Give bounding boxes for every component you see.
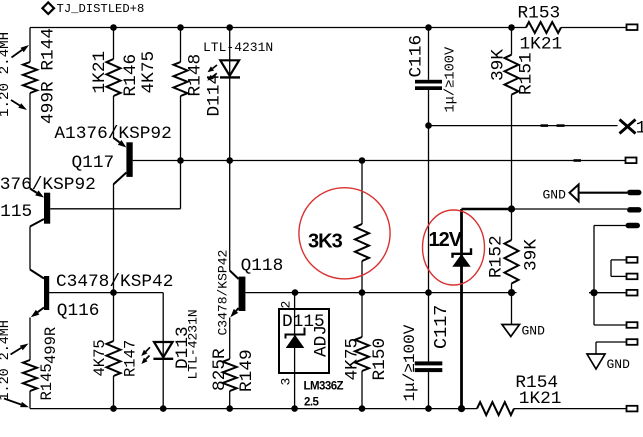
label R149 value [210,348,230,391]
label Q117 ref [72,153,115,173]
svg-text:3: 3 [279,378,294,386]
svg-text:1.20 2.4MH: 1.20 2.4MH [0,32,13,117]
resistor R154 [477,402,514,415]
node X1 cross [620,120,636,134]
svg-text:LM336Z: LM336Z [304,381,344,393]
label GND mid [522,324,546,339]
svg-text:R148: R148 [186,54,206,97]
annotation ellipse 12V [423,210,485,285]
capacitor C116 [415,80,442,90]
pad y225 filled [626,223,641,228]
svg-text:C3478/KSP42: C3478/KSP42 [56,272,173,292]
label D115 ADJ [312,325,332,357]
label X1 [636,119,643,139]
svg-text:Q116: Q116 [57,301,100,321]
label D115 pin2 [279,301,294,309]
wire dashes X1 branch [541,124,565,127]
wire pad8 to gnd [596,342,627,355]
capacitor C117 [415,361,443,372]
annotation circle 3K3 [299,188,390,279]
svg-text:4K75: 4K75 [139,51,159,94]
transistor Q117 collector [114,173,127,185]
svg-text:LTL-4231N: LTL-4231N [186,309,201,379]
label L value bot [0,320,13,400]
svg-text:Q117: Q117 [72,153,115,173]
transistor Q115 collector [30,219,44,227]
transistor Q117 bar [126,142,132,177]
shunt-ref D115 box [279,309,329,373]
zener D115 [286,328,305,349]
svg-text:1: 1 [636,119,643,139]
ground GND mid [502,325,520,337]
resistor R150 [355,337,369,371]
resistor R144 [23,62,37,93]
svg-text:39K: 39K [522,239,542,271]
label Q118 type [216,250,231,336]
pad y260 [627,257,638,263]
label D115 ref [282,312,325,332]
junction dots rail [110,405,465,412]
svg-text:825R: 825R [210,348,230,391]
svg-text:R149: R149 [237,349,257,392]
label R149 ref [237,349,257,392]
label R151 value [489,49,509,81]
label R154 value [519,389,562,409]
svg-text:R153: R153 [518,4,561,24]
label R152 ref [487,235,507,278]
svg-text:Q118: Q118 [241,256,284,276]
pad top-right [627,24,638,30]
svg-text:A1376/KSP92: A1376/KSP92 [0,175,96,195]
wire C116-C117 column x428.5 [428,28,430,409]
svg-text:D114: D114 [205,74,225,117]
wire bracket x611 [611,260,627,277]
label R145 ref [38,363,56,400]
label R150 value [343,338,363,381]
label LM336Z value [304,397,319,409]
svg-text:A1376/KSP92: A1376/KSP92 [54,124,171,144]
wire R151-R152 column x511.5 [511,28,513,325]
label L value top [0,32,13,117]
wire gnd-arrow pad y192.5 [579,192,627,194]
wire 12V net thick [462,209,513,409]
junction dots y292 [110,289,597,296]
pad row y160 [626,158,637,164]
svg-text:C116: C116 [407,35,427,78]
pad y325 [627,322,638,328]
svg-text:1μ/≥100V: 1μ/≥100V [444,46,459,112]
transistor Q118 bar [239,277,246,311]
label Q117 type [54,124,171,144]
ground GND right [587,354,605,369]
label R146 value [90,51,110,94]
svg-text:2.5: 2.5 [304,397,319,409]
wire mid row y292.6 [245,292,516,294]
label 3K3 [308,230,343,252]
label R152 value [522,239,542,271]
svg-text:499R: 499R [42,327,60,364]
label R151 ref [517,52,537,95]
pad y293 [627,290,638,296]
label D114 ref [205,74,225,117]
svg-text:Q115: Q115 [0,202,32,222]
label 12V [429,229,463,251]
transistor Q115 emitter [30,189,44,198]
label R147 ref [122,340,140,377]
svg-text:2: 2 [279,301,294,309]
port GND arrow [570,185,579,202]
svg-text:GND: GND [522,324,546,339]
wire top rail [30,27,627,29]
LED D113 [153,342,173,359]
svg-text:C117: C117 [431,305,452,349]
label D114 type [203,40,273,55]
wire left column x30 [29,28,31,409]
svg-text:4K75: 4K75 [91,339,109,376]
junction dots top rail [110,24,515,31]
svg-text:1K21: 1K21 [90,51,110,94]
label R154 ref [515,373,558,393]
label R153 ref [518,4,561,24]
svg-text:12V: 12V [429,229,463,251]
label LM336Z [304,381,344,393]
wire D115 column x294.6 [294,293,296,409]
transistor Q116 collector [30,270,44,279]
resistor R149 [223,359,237,391]
wire R148 column x180.5 [180,28,182,209]
pad y209 filled [627,207,642,212]
resistor R153 [526,22,561,33]
label Q116 ref [57,301,100,321]
resistor R146 [107,59,121,96]
transistor Q117 emitter [114,138,127,148]
svg-text:TJ_DISTLED+8: TJ_DISTLED+8 [57,2,145,16]
svg-text:1K21: 1K21 [519,389,562,409]
label C117 ref [431,305,452,349]
arrow L-couple bot-a [11,344,29,355]
label GND arrow [543,188,567,203]
svg-text:GND: GND [607,357,631,372]
label R145 value [42,327,60,364]
LED D114 arrows [207,65,217,81]
wire X1 branch y125.6 [429,125,618,127]
arrow L-couple top-b [11,100,27,110]
wire right column x594 [589,226,627,326]
label D113 ref [173,326,193,369]
resistor 3K3 [355,224,369,261]
label Q115 type [0,175,96,195]
svg-text:C3478/KSP42: C3478/KSP42 [216,250,231,336]
svg-text:R147: R147 [122,340,140,377]
arrow L-couple bot-b [4,399,29,408]
label R144 [39,28,59,124]
resistor R148 [174,62,188,96]
label C116 ref [407,35,427,78]
LED D113 arrows [141,347,150,364]
svg-text:R146: R146 [121,54,141,97]
resistor R147 [107,341,121,376]
pad y342 [627,339,638,345]
wire node base-row y160 [133,160,626,162]
label R147 value [91,339,109,376]
svg-text:499R R144: 499R R144 [39,28,59,124]
transistor Q115 bar [44,193,50,224]
wire bottom rail [30,408,627,410]
wire R146 column x113.5 [113,28,115,409]
wire dash y160 [574,159,582,162]
label R148 value [139,51,159,94]
label C116 value [444,46,459,112]
svg-text:3K3: 3K3 [308,230,343,252]
label C117 value [401,324,419,401]
svg-text:1K21: 1K21 [520,35,563,55]
resistor R151 [505,55,519,95]
zener 12V [452,248,471,267]
pad gnd filled [627,190,642,195]
label D113 type [186,309,201,379]
svg-text:4K75: 4K75 [343,338,363,381]
wire 3K3 column x362 [361,161,363,409]
junction dot y209 [508,205,515,212]
transistor Q118 emitter [230,308,238,317]
label TJ_DISTLED+8 [57,2,145,16]
label Q116 type [56,272,173,292]
label Q115 ref [0,202,32,222]
svg-text:R145: R145 [38,363,56,400]
label R153 value [520,35,563,55]
svg-text:39K: 39K [489,49,509,81]
label D115 pin3 [279,378,294,386]
svg-text:LTL-4231N: LTL-4231N [203,40,273,55]
transistor Q116 bar [44,276,49,310]
wire pad2 y209 [512,208,628,210]
resistor R152 [505,240,519,284]
svg-text:R151: R151 [517,52,537,95]
wire base row left y292.6 [49,293,163,409]
svg-text:1.20 2.4MH: 1.20 2.4MH [0,320,13,400]
svg-text:ADJ: ADJ [312,325,332,357]
svg-text:GND: GND [543,188,567,203]
transistor Q118 collector [230,271,239,280]
label R146 ref [121,54,141,97]
svg-text:1μ/≥100V: 1μ/≥100V [401,324,419,401]
flag TJ_DISTLED+8 diamond [42,2,54,14]
wire Q115 base [50,208,180,210]
label Q118 ref [241,256,284,276]
svg-text:R150: R150 [370,338,390,381]
arrow L-couple top-a [12,45,30,58]
svg-text:R152: R152 [487,235,507,278]
wire D114 column x229.7 [229,28,231,409]
junction dot y125 [425,122,432,129]
junction dots y160 [177,157,365,164]
label R150 ref [370,338,390,381]
LED D114 [220,60,240,77]
label R148 ref [186,54,206,97]
label GND right [607,357,631,372]
pad y276 [627,274,638,280]
pad bottom-right [627,406,638,412]
resistor R145 [23,360,37,391]
transistor Q116 emitter [31,308,44,318]
